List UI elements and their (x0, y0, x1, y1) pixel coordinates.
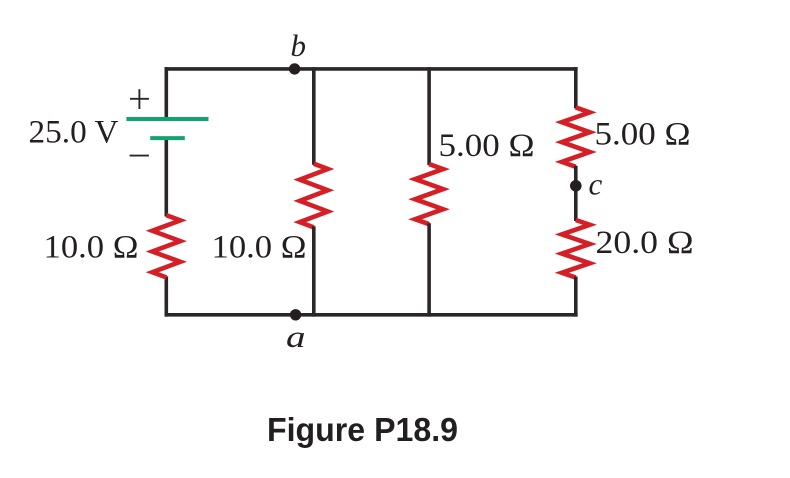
node c (570, 180, 582, 192)
wire right branch: upper resistor to lower resistor through node c (574, 166, 578, 221)
svg-text:25.0 V: 25.0 V (29, 115, 119, 151)
svg-text:5.00 Ω: 5.00 Ω (595, 117, 691, 153)
wire top (node b rail) (165, 67, 578, 71)
svg-text:20.0 Ω: 20.0 Ω (596, 225, 694, 261)
svg-text:10.0 Ω: 10.0 Ω (44, 230, 139, 266)
resistor 10.0 ohm (left branch) (152, 215, 180, 277)
wire left branch: top corner down to battery + plate (165, 67, 169, 117)
svg-text:c: c (589, 166, 603, 201)
battery minus plate (short, green) (150, 136, 185, 140)
wire third branch: resistor to bottom rail (427, 223, 431, 316)
svg-text:5.00 Ω: 5.00 Ω (439, 128, 535, 164)
resistor 5.00 ohm (third branch) (415, 164, 443, 224)
wire left branch: resistor to bottom corner (165, 276, 169, 316)
battery + sign (130, 89, 149, 109)
wire third branch: top rail to resistor (427, 67, 431, 165)
wire right branch: top corner to upper resistor (574, 67, 578, 108)
node b (289, 63, 300, 74)
wire right branch: lower resistor to bottom corner (574, 277, 578, 317)
wire second branch: top rail to resistor (312, 67, 316, 165)
resistor 5.00 ohm (right branch upper) (562, 107, 590, 166)
svg-text:b: b (291, 28, 307, 63)
node a (290, 309, 301, 320)
wire bottom (node a rail) (165, 313, 578, 317)
resistor 10.0 ohm (second branch) (300, 164, 328, 228)
battery - sign (130, 155, 149, 157)
wire left branch: battery - plate down to resistor (165, 140, 169, 217)
svg-text:Figure P18.9: Figure P18.9 (267, 411, 458, 448)
battery plus plate (long, green) (126, 117, 208, 121)
svg-text:10.0 Ω: 10.0 Ω (212, 230, 307, 266)
wire second branch: resistor to bottom rail (312, 226, 316, 316)
svg-text:a: a (286, 319, 306, 354)
resistor 20.0 ohm (right branch lower) (562, 220, 590, 278)
